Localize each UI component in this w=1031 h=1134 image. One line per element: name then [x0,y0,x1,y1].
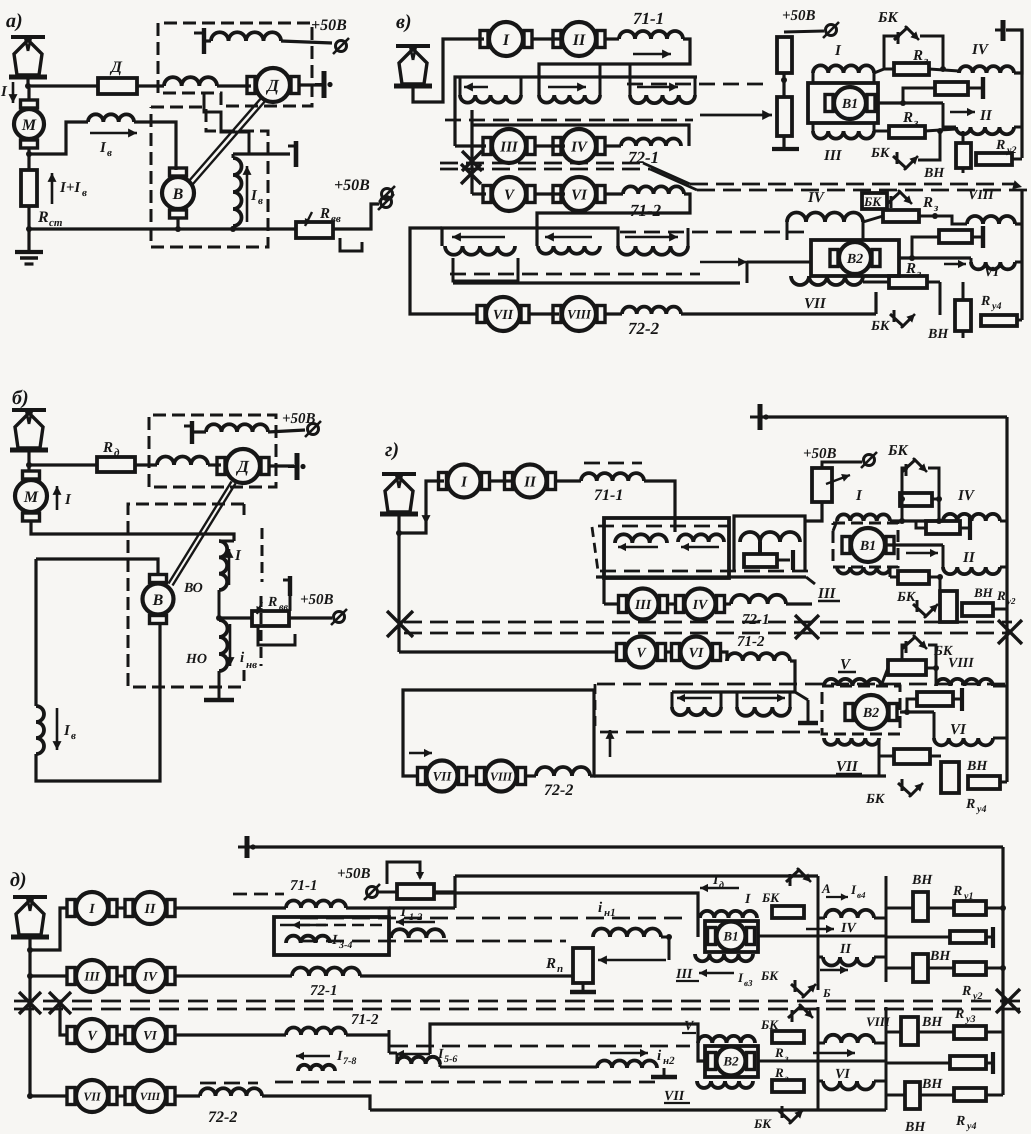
band2 top wire v [442,228,618,246]
Rz top B2v [883,210,919,222]
motor III g [628,589,659,620]
arrow feeder into stack [700,114,772,117]
resistor Rz bottom v [874,130,889,133]
svg-text:II: II [523,474,537,490]
coil 72-1 d [292,968,360,977]
svg-text:III: III [817,586,837,602]
damper resistor v [903,88,935,103]
brush bar b [295,453,300,480]
svg-text:а): а) [6,10,23,32]
svg-text:I: I [850,882,857,897]
svg-text:ст: ст [49,217,63,229]
svg-text:III: III [675,967,693,982]
machine B1 v [808,83,878,123]
motor III d [76,960,108,992]
damper g [916,521,926,528]
right bus g [1005,417,1008,782]
wire 72-2 up g [590,690,594,776]
svg-text:72-2: 72-2 [544,782,573,799]
machine B2 v [811,240,899,276]
Rz top g [900,493,932,506]
loop bottom b [36,622,160,781]
svg-text:R: R [954,1007,964,1022]
svg-text:В2: В2 [722,1054,739,1069]
terminal d [367,887,378,898]
reactor band low g [672,690,795,693]
coil 71-2 v [605,192,623,195]
bottom wire a [29,227,297,230]
svg-text:IV: IV [142,969,158,984]
coil 72-1 g [724,602,731,605]
field loop wire a [29,122,88,154]
reactor cluster g [604,518,729,578]
svg-text:Д: Д [109,59,123,76]
svg-text:II: II [979,108,993,124]
coil III B1 [812,123,815,131]
svg-text:Б: Б [822,986,831,1000]
wire III-IV g [667,602,676,605]
row E d [886,1062,950,1065]
reactor band1 top wire [455,77,697,146]
left bus d [28,950,31,1096]
svg-text:VII: VII [83,1089,102,1103]
row4 d [30,1094,68,1097]
brush bar above Rvv [283,579,290,582]
wire V-VI g [665,650,672,653]
svg-text:з: з [933,202,939,214]
wire panto to node [26,77,29,88]
svg-text:Д: Д [235,457,250,476]
arrow down g [425,492,428,524]
svg-text:+50В: +50В [282,411,316,427]
svg-text:ВН: ВН [973,585,994,600]
svg-text:IV: IV [570,139,589,155]
resistor Rst [21,170,37,206]
coil 71-1 v [619,31,683,39]
coil IV B2v [786,222,789,240]
svg-text:IV: IV [971,42,990,58]
svg-text:з: з [913,117,919,129]
svg-text:VI: VI [984,265,999,280]
motor IV g [685,589,716,620]
motor I d [76,892,108,924]
svg-text:вв: вв [331,213,341,225]
band1 group B [599,64,602,95]
coil VIII B2v [967,216,1015,224]
mid wire v [472,125,689,146]
svg-text:в3: в3 [744,978,753,988]
left bus g [397,533,400,648]
svg-text:R: R [905,261,916,277]
svg-text:БК: БК [863,194,882,209]
wire panto b [27,450,30,472]
svg-text:В1: В1 [859,539,876,554]
coil 72-2 d [200,1088,262,1096]
damper B2v [912,237,939,258]
svg-text:БК: БК [760,968,779,983]
machine D b [226,449,260,483]
wire 71-2 down g [790,661,795,692]
brush bar in V box [288,145,296,148]
coil VIII d [825,1035,874,1043]
wire I-II d [116,906,126,909]
wire coil to V top [134,122,176,170]
resistor Rvv a [296,222,333,238]
coil Iv b [36,706,44,754]
svg-text:7-8: 7-8 [343,1056,356,1067]
svg-text:IV: IV [807,190,826,206]
svg-text:БК: БК [877,10,899,26]
row3 feed d [60,1003,68,1035]
coil I B1d [700,911,757,918]
dashed bus v upper [445,119,693,122]
BK VN bottom B2v [939,282,942,315]
shaft D to V [189,97,263,182]
row1 feed d [30,908,68,950]
coil V B2d [698,1036,755,1043]
wire 71-1 down g [644,481,675,532]
top wire d [247,845,1003,848]
svg-text:R: R [996,588,1006,603]
pantograph b [12,408,46,412]
svg-text:М: М [21,117,37,134]
Rz top g2 [888,660,926,675]
right links g2 [993,685,1007,688]
svg-text:+50В: +50В [300,592,334,608]
wire D to bar [299,83,322,86]
wire III-IV d [116,974,126,977]
wire VI-coil d [174,1033,286,1036]
wire II-coil d [174,906,286,909]
coil 71-1 d [286,901,346,908]
svg-text:I: I [250,188,258,204]
svg-text:+50В: +50В [311,17,347,34]
x junctions d left [19,992,41,1014]
terminal left v [382,189,393,200]
pantograph a [11,35,45,39]
wire I-II g [489,479,514,482]
wire IV-coil d [174,974,292,977]
svg-text:II: II [962,550,976,566]
motor I v [489,22,523,56]
right edge vertical v [1020,30,1023,158]
coil T12 d [391,929,444,938]
block I5-6 d [388,1030,391,1052]
svg-text:I: I [88,902,95,917]
coil IV B1 [959,66,1014,73]
svg-text:II: II [572,32,586,49]
long wire 893 d [434,893,698,937]
coil 72-1 v [605,144,621,147]
svg-text:R: R [952,884,962,899]
coil VO [219,541,227,590]
series coil b1 [157,457,208,466]
coil VII B2v [791,276,863,285]
svg-text:у4: у4 [976,804,986,815]
wire coil to motor D [217,84,251,87]
svg-text:ВН: ВН [966,759,988,774]
svg-text:II: II [144,902,156,917]
terminal +50V b [334,612,345,623]
wire II-coil v [605,37,619,40]
svg-text:I: I [63,723,71,739]
arrow I b [56,486,59,510]
svg-text:В: В [172,186,184,203]
svg-text:в4: в4 [857,890,866,900]
svg-text:III: III [823,148,843,164]
svg-text:в: в [82,187,87,199]
coil IV d [825,910,874,918]
wire to motor V [472,192,486,195]
motor V v [492,177,526,211]
svg-text:у1: у1 [963,891,973,902]
svg-text:IV: IV [692,598,709,613]
svg-text:ВН: ВН [921,1077,943,1092]
Ry2 resistor v [976,153,1012,165]
svg-text:I: I [737,970,744,985]
svg-text:VIII: VIII [140,1091,161,1103]
svg-text:R: R [102,440,113,456]
svg-text:+50В: +50В [334,177,370,194]
wire Rvv to terminal b [289,616,332,619]
wire to Rvv b [219,616,252,619]
x junctions g left [387,611,413,637]
svg-text:з: з [784,1073,789,1083]
ground Rp d [582,983,585,991]
coil VII g [824,738,879,745]
wire III-IV v [535,144,565,147]
row F d [886,1094,905,1097]
svg-text:VIII: VIII [567,307,592,322]
svg-text:в: в [258,195,263,207]
svg-text:I: I [64,492,72,508]
Rz2 g2 [878,738,881,756]
wire to motor III [455,144,486,147]
svg-text:з: з [916,268,922,280]
row B d [886,936,950,939]
wire 71-2 return [537,194,690,246]
svg-text:R: R [912,48,923,64]
up arrow g band [609,730,612,757]
arrow Id [700,887,739,889]
svg-text:III: III [634,598,652,613]
wire M bottom to node [27,148,30,170]
svg-text:R: R [980,294,990,309]
svg-text:R: R [774,1065,784,1080]
coil V g [824,679,881,686]
resistor Rd [97,457,135,472]
contact top d [789,874,792,886]
terminal +50V a-right [381,197,392,208]
svg-text:I: I [834,43,842,59]
ground T band g [807,700,810,722]
svg-text:I: I [712,873,719,888]
Rz d3 [772,1080,804,1092]
motor VIII d [134,1080,166,1112]
wire panto g [399,481,444,533]
svg-text:R: R [965,797,975,812]
svg-text:В2: В2 [846,252,863,267]
hook below Rvv [340,238,362,251]
wire Rvv to terminal [333,204,379,229]
x junction v2 [461,164,481,184]
series coil a1 [164,77,217,86]
row A d [886,907,913,910]
machine B2 g [822,686,900,734]
in2 coil d [597,1061,657,1068]
machine V b [143,584,174,615]
band1 group C [629,64,632,95]
wire B2 right g [900,710,934,713]
excitation coil b top [184,425,192,428]
arrow I VO [228,549,231,585]
wire resistor D to coil [137,84,164,87]
dashed bus low g [597,683,1010,686]
dash above 72-2 [200,1082,258,1085]
coil 72-2 g [525,774,536,777]
motor II v [562,22,596,56]
wire I-IV g [890,519,943,522]
coil 72-2 v [605,312,622,315]
row C d [886,967,913,970]
machine B1 d [705,921,758,952]
right bus d [1001,847,1004,1095]
svg-text:I: I [336,1049,343,1064]
motor VII g [427,761,458,792]
machine B2 d [705,1046,758,1077]
svg-text:R: R [902,110,913,126]
wire D to bar b [270,464,294,467]
wire cluster to row2 g [602,578,605,604]
dashed feeder B2 v [620,231,808,234]
pantograph g [382,472,416,476]
svg-text:71-1: 71-1 [633,9,664,28]
coil II g [943,567,1000,574]
long wire 876 d [455,874,790,877]
box verticals d2 [817,1007,820,1110]
svg-text:БК: БК [870,319,891,334]
loop left v bottom [410,228,476,314]
loop left b [34,559,37,706]
svg-text:R: R [922,195,933,211]
svg-text:VIII: VIII [968,188,994,203]
svg-text:б): б) [12,387,29,409]
arrow row4 g [409,752,432,754]
wire B1 to coil II [878,101,943,104]
dashed box around V [151,107,268,247]
svg-text:72-2: 72-2 [628,319,660,338]
svg-text:ВО: ВО [183,581,203,596]
top wire g [760,415,1007,418]
wire VII bottom g [878,753,881,776]
motor VII d [76,1080,108,1112]
x junction d right [996,989,1020,1013]
coil VI g [934,738,993,745]
svg-text:НО: НО [185,652,207,667]
VN Ry4 g [941,762,959,793]
machine M [14,109,44,139]
wire I-II v [532,37,562,40]
row V g [397,648,400,652]
machine V [162,177,194,209]
coil 71-2 g [720,652,727,661]
svg-text:ВН: ВН [911,873,933,888]
svg-text:III: III [83,969,100,984]
main dashed bus d [14,1000,1020,1003]
motor VII v [486,297,520,331]
ground bar top right v [1001,20,1006,41]
svg-text:VII: VII [433,769,453,784]
resistor Rz top v [874,69,884,73]
wire Rst to ground [27,206,30,252]
svg-text:А: А [821,881,831,896]
dashed box b2 [128,504,244,687]
svg-text:у4: у4 [991,301,1001,312]
earth top d [245,836,250,858]
svg-text:з: з [923,55,929,67]
cluster bottom wire g [596,575,806,578]
svg-text:ВН: ВН [923,166,945,181]
wire VII-VIII v [529,312,559,315]
band1 group A [459,77,462,95]
T1-2 block d [378,891,397,894]
terminal g [864,455,875,466]
B1d right wires [758,935,886,938]
dashed feeder to B1 [627,83,770,86]
motor V d [76,1019,108,1051]
svg-text:VI: VI [143,1028,158,1043]
svg-text:72-1: 72-1 [310,983,338,999]
motor VIII g [486,761,517,792]
svg-text:R: R [267,595,277,610]
svg-text:R: R [319,206,330,222]
arrow Iv b [56,708,59,750]
motor VI g [681,637,712,668]
pantograph v [396,44,430,48]
wire panto to row1 v [413,39,484,102]
arrow Iv a [90,132,137,135]
svg-text:71-2: 71-2 [351,1012,379,1028]
Rz bottom g [889,567,892,577]
resistor stack v bottom [777,97,792,136]
svg-text:БК: БК [865,792,886,807]
wire V-VI v [535,192,565,195]
svg-text:R: R [995,138,1005,153]
BK contact d2 [791,1010,794,1022]
svg-text:ВН: ВН [927,327,949,342]
left bus v [470,110,473,194]
svg-text:VII: VII [664,1089,685,1104]
in1 coil d [593,929,661,937]
loop bottom g [403,690,594,776]
ground T in2 [663,1068,666,1076]
svg-text:I: I [0,84,8,100]
arrow inv [229,624,232,666]
field coil Iv a [88,114,134,122]
coil NO [219,620,228,671]
coil IV g [943,514,1000,521]
svg-text:II: II [839,942,851,957]
coil VIII g [936,679,993,686]
VN resistor B2v [955,300,971,331]
coil 71-2 d [286,1028,346,1036]
stack bottom bar [782,136,785,147]
wire 71-2 right d [346,1033,389,1036]
svg-text:72-2: 72-2 [208,1109,237,1126]
svg-text:вв: вв [279,602,288,613]
svg-text:В2: В2 [862,706,879,721]
svg-text:71-2: 71-2 [737,634,765,650]
